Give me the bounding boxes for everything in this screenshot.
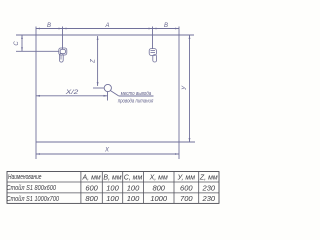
svg-text:Z, мм: Z, мм [199,175,218,182]
svg-text:В, мм: В, мм [103,175,121,182]
svg-text:Наименование: Наименование [8,174,42,181]
svg-text:C: C [14,41,20,46]
svg-text:провода питания: провода питания [118,99,154,105]
svg-text:Стойл S1 1000x700: Стойл S1 1000x700 [7,195,60,203]
svg-text:700: 700 [180,194,193,203]
svg-text:Стойл S1 800x600: Стойл S1 800x600 [7,184,57,192]
svg-text:У, мм: У, мм [177,175,196,182]
svg-text:B: B [164,23,168,29]
svg-text:100: 100 [127,183,140,192]
svg-text:100: 100 [106,194,119,203]
svg-text:A: A [104,23,109,29]
svg-text:600: 600 [85,183,98,192]
svg-text:1000: 1000 [150,194,168,203]
svg-text:100: 100 [127,194,140,203]
svg-text:Х, мм: Х, мм [149,175,168,182]
svg-text:800: 800 [85,194,98,203]
svg-text:Z: Z [91,59,97,64]
svg-text:B: B [47,23,51,29]
svg-text:230: 230 [202,183,216,192]
svg-text:X/2: X/2 [64,90,79,96]
svg-text:230: 230 [202,194,216,203]
svg-text:А, мм: А, мм [82,175,101,182]
svg-text:У: У [182,85,188,91]
svg-text:место вывода: место вывода [121,91,152,97]
svg-text:800: 800 [152,183,165,192]
svg-text:X: X [104,148,110,154]
svg-text:600: 600 [180,183,193,192]
svg-text:100: 100 [106,183,119,192]
svg-text:С, мм: С, мм [124,175,143,182]
